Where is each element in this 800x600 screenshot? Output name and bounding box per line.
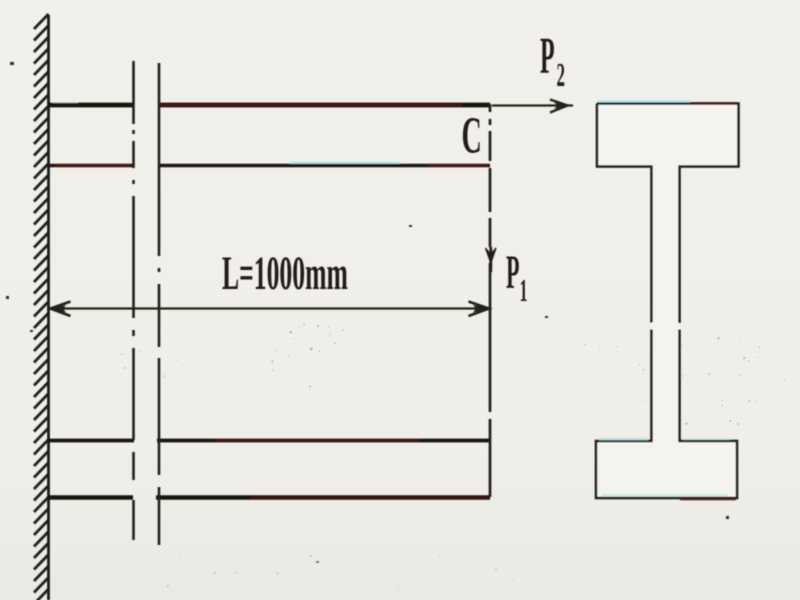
node C (free end) <box>462 108 482 165</box>
dimension line L <box>50 307 489 309</box>
faint scan speckle <box>120 324 792 588</box>
dimension label L=1000mm <box>222 248 348 300</box>
free end section line at C <box>489 104 492 497</box>
dim arrow left <box>51 302 71 317</box>
fixed support wall face line <box>47 15 50 600</box>
cyan fringes on beam lines <box>52 102 78 104</box>
specks <box>6 62 729 563</box>
break line 1 <box>132 61 135 540</box>
force label P2 <box>540 27 565 94</box>
fixed support wall hatching <box>34 14 49 600</box>
force P2 arrow (right) at C <box>492 104 573 106</box>
colour fringes on I-section <box>598 100 690 102</box>
dim arrow right <box>469 302 489 317</box>
break line 2 <box>158 63 161 545</box>
beam top flange lower line <box>48 164 490 167</box>
svg-text:2: 2 <box>557 56 565 94</box>
svg-text:P: P <box>506 247 519 300</box>
svg-text:C: C <box>462 108 482 165</box>
force label P1 <box>506 247 527 309</box>
beam bottom flange upper line <box>48 439 490 443</box>
beam bottom flange lower line <box>48 495 490 499</box>
force P1 arrow (down) at C <box>486 248 497 263</box>
svg-text:1: 1 <box>520 273 528 308</box>
svg-text:L=1000mm: L=1000mm <box>222 248 348 300</box>
svg-text:P: P <box>540 27 555 85</box>
I-beam cross-section outline <box>596 104 739 499</box>
beam top flange upper line <box>48 103 490 108</box>
